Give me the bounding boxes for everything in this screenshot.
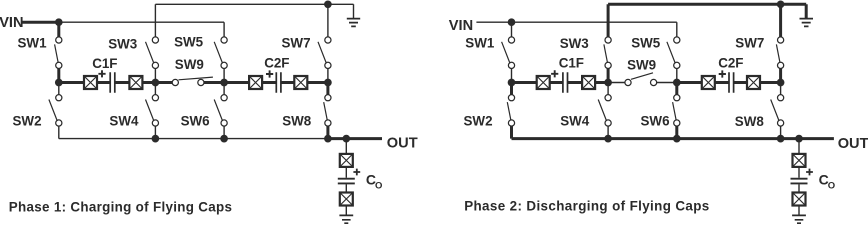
svg-text:SW5: SW5	[174, 34, 204, 49]
svg-text:SW1: SW1	[465, 36, 495, 51]
svg-text:SW2: SW2	[13, 114, 42, 129]
svg-text:SW2: SW2	[464, 114, 493, 129]
svg-text:O: O	[375, 180, 382, 191]
svg-text:OUT: OUT	[838, 136, 868, 152]
svg-text:VIN: VIN	[0, 15, 24, 31]
svg-text:SW6: SW6	[641, 114, 670, 129]
svg-text:VIN: VIN	[449, 18, 473, 34]
svg-text:C1F: C1F	[559, 56, 584, 71]
svg-text:SW9: SW9	[175, 57, 204, 72]
svg-text:C2F: C2F	[718, 56, 743, 71]
svg-text:SW6: SW6	[181, 114, 210, 129]
svg-text:C2F: C2F	[264, 56, 289, 71]
svg-text:O: O	[828, 180, 835, 191]
svg-text:Phase 2: Discharging of Flying: Phase 2: Discharging of Flying Caps	[464, 198, 709, 213]
svg-text:SW7: SW7	[282, 36, 311, 51]
svg-text:SW7: SW7	[735, 36, 764, 51]
svg-text:SW8: SW8	[282, 114, 312, 129]
svg-text:SW4: SW4	[109, 114, 139, 129]
svg-text:SW8: SW8	[735, 114, 765, 129]
svg-text:SW1: SW1	[18, 36, 48, 51]
svg-text:SW3: SW3	[560, 36, 589, 51]
svg-text:SW5: SW5	[631, 36, 661, 51]
svg-text:SW9: SW9	[627, 57, 656, 72]
svg-text:C1F: C1F	[92, 56, 117, 71]
svg-text:Phase 1: Charging of Flying Ca: Phase 1: Charging of Flying Caps	[9, 199, 232, 214]
svg-text:SW3: SW3	[108, 36, 137, 51]
svg-text:SW4: SW4	[560, 114, 590, 129]
svg-text:OUT: OUT	[387, 136, 418, 152]
